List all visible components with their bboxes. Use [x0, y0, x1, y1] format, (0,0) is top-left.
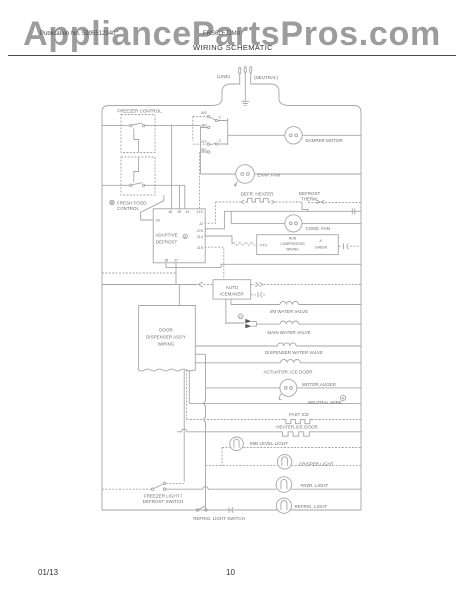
- svg-text:COND. FAN: COND. FAN: [306, 226, 331, 231]
- svg-text:WIRING: WIRING: [286, 247, 299, 251]
- svg-text:NEUTRAL WIRE: NEUTRAL WIRE: [308, 400, 342, 405]
- svg-text:10: 10: [226, 568, 235, 577]
- svg-text:DEFROST: DEFROST: [156, 239, 178, 244]
- svg-text:EVAP. FAN: EVAP. FAN: [258, 172, 280, 177]
- svg-text:Publication No. 5995512340: Publication No. 5995512340: [40, 31, 116, 37]
- svg-text:DOOR: DOOR: [159, 328, 173, 333]
- svg-text:J13: J13: [196, 209, 203, 214]
- svg-text:HEATER,ICE DOOR: HEATER,ICE DOOR: [276, 425, 318, 430]
- svg-text:J8: J8: [164, 257, 169, 262]
- svg-text:J5: J5: [177, 209, 182, 214]
- svg-text:I/M WATER VALVE: I/M WATER VALVE: [270, 309, 308, 314]
- svg-text:J2: J2: [199, 221, 204, 226]
- svg-text:J6: J6: [168, 209, 173, 214]
- svg-text:DISPENSER ASS'Y: DISPENSER ASS'Y: [146, 335, 186, 340]
- svg-text:MOTOR,AUGER: MOTOR,AUGER: [302, 382, 337, 387]
- svg-text:DEFROST SWITCH: DEFROST SWITCH: [143, 499, 183, 504]
- svg-text:DAMPER MOTOR: DAMPER MOTOR: [306, 138, 344, 143]
- svg-text:ICEMAKER: ICEMAKER: [220, 292, 244, 297]
- svg-text:DEFROST: DEFROST: [299, 191, 321, 196]
- svg-text:FREEZER LIGHT /: FREEZER LIGHT /: [144, 494, 183, 499]
- svg-text:C: C: [219, 115, 222, 120]
- svg-text:ACTUATOR, ICE DOOR: ACTUATOR, ICE DOOR: [263, 369, 313, 374]
- svg-text:J14: J14: [197, 234, 204, 239]
- svg-text:A.: A.: [319, 239, 322, 243]
- svg-text:BC: BC: [201, 147, 207, 152]
- svg-text:C: C: [219, 138, 222, 143]
- svg-text:COMPRESSOR: COMPRESSOR: [280, 242, 305, 246]
- svg-text:J7: J7: [174, 257, 179, 262]
- svg-text:REFRIG. LIGHT: REFRIG. LIGHT: [295, 504, 328, 509]
- svg-text:WIRING SCHEMATIC: WIRING SCHEMATIC: [193, 43, 273, 52]
- svg-text:01/13: 01/13: [38, 568, 59, 577]
- svg-text:WIRING: WIRING: [158, 342, 175, 347]
- svg-text:FRZR. LIGHT: FRZR. LIGHT: [301, 483, 329, 488]
- svg-text:REFRIG. LIGHT SWITCH: REFRIG. LIGHT SWITCH: [193, 516, 245, 521]
- svg-text:CONTROL: CONTROL: [117, 206, 139, 211]
- svg-text:J19: J19: [197, 245, 204, 250]
- svg-text:(NEUTRAL): (NEUTRAL): [254, 75, 279, 80]
- svg-text:CRISPER LIGHT: CRISPER LIGHT: [299, 461, 334, 466]
- svg-text:W2: W2: [201, 110, 208, 115]
- svg-text:J4: J4: [185, 209, 190, 214]
- svg-text:GREEN: GREEN: [315, 245, 328, 249]
- svg-text:FAST ICE: FAST ICE: [289, 412, 309, 417]
- svg-text:AUTO: AUTO: [226, 285, 239, 290]
- svg-text:(LINE): (LINE): [217, 74, 231, 79]
- svg-text:ADAPTIVE: ADAPTIVE: [155, 232, 177, 237]
- svg-text:PTC: PTC: [260, 244, 268, 248]
- svg-text:FREEZER CONTROL: FREEZER CONTROL: [117, 109, 162, 114]
- svg-text:J9: J9: [156, 218, 161, 223]
- svg-text:THERM.: THERM.: [301, 197, 318, 202]
- svg-text:FRESH FOOD: FRESH FOOD: [117, 201, 147, 206]
- svg-text:GY: GY: [201, 139, 207, 144]
- svg-text:BK: BK: [202, 123, 208, 128]
- svg-text:RUN: RUN: [289, 236, 297, 240]
- svg-text:MID LEVEL LIGHT: MID LEVEL LIGHT: [250, 441, 288, 446]
- svg-text:DISPENSER WATER VALVE: DISPENSER WATER VALVE: [265, 350, 323, 355]
- svg-text:FRS6LF7JM0: FRS6LF7JM0: [203, 31, 241, 37]
- svg-text:MAIN WATER VALVE: MAIN WATER VALVE: [267, 330, 310, 335]
- svg-text:DEFR. HEATER: DEFR. HEATER: [241, 192, 274, 197]
- svg-text:J23: J23: [197, 228, 204, 233]
